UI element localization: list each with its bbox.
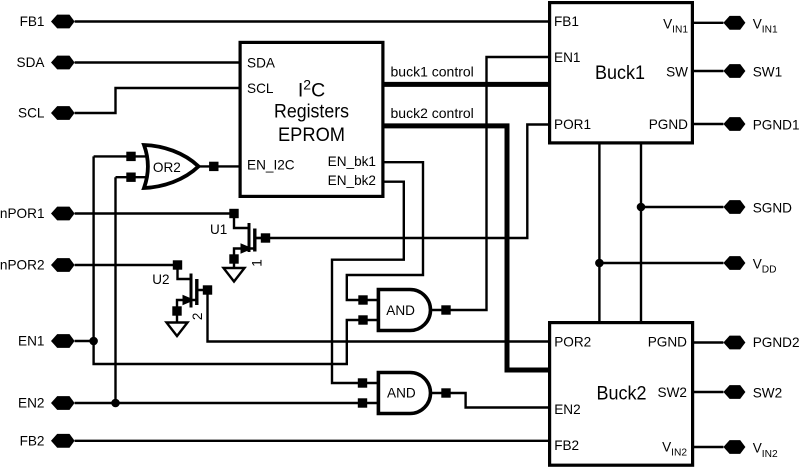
pad U1 drain [261, 233, 270, 242]
svg-text:EN_bk2: EN_bk2 [328, 173, 376, 188]
junction EN1 [89, 337, 98, 346]
port SCL [18, 106, 75, 121]
block Buck1 [550, 3, 693, 143]
pad U2 gate [173, 260, 182, 269]
wire VDD [599, 262, 723, 264]
wire EN1 net to OR2 and AND1 [75, 156, 379, 364]
svg-text:SCL: SCL [247, 81, 274, 96]
svg-text:EN2: EN2 [18, 396, 44, 411]
wire PGND2 [694, 341, 723, 343]
junction VDD [595, 259, 604, 268]
svg-text:POR2: POR2 [554, 335, 591, 350]
wire nPOR1 net [75, 212, 234, 214]
svg-text:nPOR2: nPOR2 [0, 258, 45, 273]
wire U2 gate [178, 265, 192, 279]
svg-text:U1: U1 [210, 222, 227, 237]
or-gate OR2 [144, 145, 199, 188]
wire FB1 net [75, 20, 548, 22]
wire VIN1 [694, 22, 723, 24]
svg-text:FB1: FB1 [554, 14, 579, 29]
svg-text:OR2: OR2 [153, 160, 181, 175]
svg-text:EN2: EN2 [554, 402, 580, 417]
wire EN_bk1 to AND1 [347, 162, 423, 300]
svg-text:nPOR1: nPOR1 [0, 206, 45, 221]
svg-text:Buck1: Buck1 [595, 62, 645, 84]
wire buck2 control (thick) [385, 126, 549, 370]
pad OR2 input 2 [126, 173, 135, 182]
wire SGND [641, 206, 723, 208]
svg-text:buck1 control: buck1 control [391, 64, 474, 80]
port FB2 [20, 433, 75, 448]
wire SDA net [75, 61, 239, 63]
wire AND1 output to Buck1 EN1 [431, 57, 548, 310]
transistor U2 [152, 272, 205, 320]
port PGND1 [723, 117, 799, 132]
block I2C Registers EPROM [240, 42, 383, 196]
wire PGND1 [694, 123, 723, 125]
ground for U2 [167, 323, 188, 337]
svg-text:I2C: I2C [298, 77, 325, 102]
svg-text:AND: AND [387, 386, 416, 401]
wire SW2 [694, 391, 723, 393]
port EN2 [18, 396, 75, 411]
wire VDD vertical [598, 145, 600, 322]
wire SW [694, 70, 723, 72]
port FB1 [20, 14, 75, 29]
svg-text:1: 1 [249, 259, 264, 267]
wire U1 drain to POR1 [255, 125, 548, 239]
svg-text:PGND: PGND [648, 335, 687, 350]
wire EN2 net to OR2 and AND2 [75, 177, 379, 403]
svg-text:SDA: SDA [17, 55, 46, 70]
svg-text:SW1: SW1 [753, 65, 782, 80]
pad OR2 output [209, 162, 218, 171]
svg-text:FB1: FB1 [20, 14, 45, 29]
svg-text:EN1: EN1 [18, 334, 44, 349]
svg-text:SCL: SCL [18, 106, 45, 121]
svg-text:buck2 control: buck2 control [391, 105, 474, 121]
pad AND2 input 1 [358, 378, 367, 387]
svg-text:SW2: SW2 [753, 386, 782, 401]
wire SGND vertical [640, 145, 642, 322]
and-gate AND1 [378, 290, 430, 331]
wire U1 source to ground [234, 249, 255, 269]
port SDA [17, 55, 75, 70]
ground for U1 [224, 268, 245, 282]
wire nPOR2 net [75, 264, 178, 266]
pad AND2 output [441, 388, 450, 397]
wire AND2 output to Buck2 EN2 [431, 393, 548, 408]
port SGND [723, 200, 792, 215]
junction SGND [637, 203, 646, 212]
svg-text:PGND2: PGND2 [753, 335, 800, 350]
pad AND2 input 2 [358, 398, 367, 407]
port VIN1 [723, 16, 778, 36]
svg-text:EPROM: EPROM [278, 124, 345, 146]
wire VIN2 [694, 446, 723, 448]
svg-text:FB2: FB2 [554, 438, 579, 453]
port SW1 [723, 64, 782, 79]
svg-text:EN1: EN1 [554, 50, 580, 65]
pad U1 source [229, 254, 238, 263]
wire EN_bk2 to AND2 [332, 182, 404, 383]
pad U2 source [172, 306, 181, 315]
wire U2 source to ground [177, 300, 197, 323]
svg-text:2: 2 [190, 313, 205, 321]
svg-text:Registers: Registers [274, 100, 349, 122]
port VDD [723, 256, 776, 276]
transistor U1 [210, 222, 266, 267]
svg-text:SW: SW [666, 64, 688, 79]
block Buck2 [550, 323, 693, 466]
svg-text:PGND: PGND [649, 117, 688, 132]
wire buck1 control (thick) [385, 82, 549, 87]
port SW2 [723, 385, 782, 400]
svg-text:SGND: SGND [753, 201, 792, 216]
pad AND1 input 2 [358, 315, 367, 324]
svg-text:SDA: SDA [247, 56, 276, 71]
svg-text:POR1: POR1 [554, 117, 591, 132]
and-gate AND2 [378, 372, 430, 413]
port nPOR1 [0, 206, 75, 221]
svg-text:EN_bk1: EN_bk1 [328, 154, 376, 169]
pad U1 gate [229, 209, 238, 218]
junction EN2 [111, 399, 120, 408]
wire U1 gate [234, 214, 249, 229]
wire OR2 output to EN_I2C [197, 165, 239, 167]
svg-text:AND: AND [386, 303, 415, 318]
port VIN2 [723, 440, 778, 460]
wire SCL net [75, 88, 239, 113]
wire FB2 net [75, 440, 548, 442]
port EN1 [18, 334, 75, 349]
pad U2 drain [203, 285, 212, 294]
svg-text:Buck2: Buck2 [597, 382, 647, 404]
svg-text:SW2: SW2 [658, 385, 687, 400]
pad AND1 output [441, 305, 450, 314]
svg-text:PGND1: PGND1 [753, 118, 800, 133]
svg-text:U2: U2 [152, 272, 169, 287]
svg-text:FB2: FB2 [20, 433, 45, 448]
pad OR2 input 1 [126, 152, 135, 161]
port PGND2 [723, 335, 799, 350]
svg-text:EN_I2C: EN_I2C [247, 158, 295, 173]
wire U2 drain to POR2 [197, 290, 548, 342]
port nPOR2 [0, 258, 75, 273]
pad AND1 input 1 [358, 295, 367, 304]
